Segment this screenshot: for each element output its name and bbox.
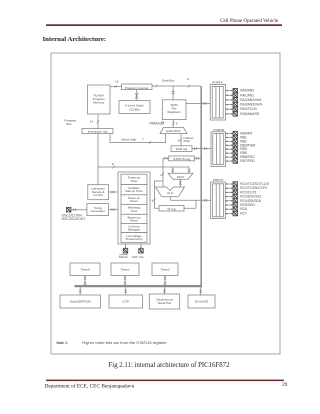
svg-text:Addr: Addr xyxy=(183,139,190,143)
block Instruction Decode and Control xyxy=(88,185,109,200)
wire indirect addr xyxy=(178,134,194,146)
svg-text:RA1/AN1: RA1/AN1 xyxy=(240,93,254,97)
svg-text:8: 8 xyxy=(112,162,114,166)
block Timer1 xyxy=(111,263,139,276)
port PORTA xyxy=(210,80,225,120)
svg-text:RC7: RC7 xyxy=(240,212,247,216)
pin RA1/AN1 xyxy=(226,93,255,98)
block Low Voltage Programming xyxy=(121,233,147,243)
svg-text:29: 29 xyxy=(282,382,288,388)
pin RB6/PGC xyxy=(226,155,256,160)
pin RB5 xyxy=(226,151,247,156)
svg-text:Internal Architecture:: Internal Architecture: xyxy=(43,36,107,43)
svg-text:Bus: Bus xyxy=(67,122,73,126)
pin RC7 xyxy=(225,211,247,216)
mux MUX xyxy=(168,173,193,179)
svg-text:Program Counter: Program Counter xyxy=(125,86,149,90)
svg-text:9: 9 xyxy=(176,121,178,125)
block Timer0 xyxy=(70,263,100,276)
wire timing to control column xyxy=(109,208,119,211)
svg-text:Timer: Timer xyxy=(130,179,137,183)
block Watchdog Timer xyxy=(121,204,147,214)
svg-text:Cell Phone Operated Vehicle: Cell Phone Operated Vehicle xyxy=(220,19,279,24)
block FLASH Program Memory xyxy=(88,85,111,114)
pin RA2/AN2/Vref- xyxy=(226,98,262,103)
svg-text:10-bit A/D: 10-bit A/D xyxy=(195,300,209,304)
svg-text:Timer1: Timer1 xyxy=(120,267,130,271)
block control column outer xyxy=(118,172,150,244)
block RAM File Registers xyxy=(162,100,186,120)
wire ALU output to data bus and PORTC xyxy=(170,197,210,202)
pin RC6 xyxy=(225,207,247,212)
wire mux right input xyxy=(188,167,191,173)
svg-text:Timer0: Timer0 xyxy=(80,267,90,271)
svg-text:(1): (1) xyxy=(162,122,165,124)
block Power-up Timer xyxy=(121,174,147,184)
svg-text:Generation: Generation xyxy=(91,209,106,213)
svg-text:(13-Bit): (13-Bit) xyxy=(129,107,139,111)
block Data EEPROM xyxy=(60,295,101,308)
wire STATUS to data bus xyxy=(195,157,201,160)
svg-text:Direct Addr: Direct Addr xyxy=(122,137,137,141)
pin RC1/T1OSI/CCP2 xyxy=(225,186,267,191)
wire Synchronous Serial Port to bus xyxy=(163,287,166,294)
pin RB1 xyxy=(226,135,247,140)
wire PC to stack xyxy=(135,90,139,101)
block W reg xyxy=(159,206,184,212)
svg-text:8: 8 xyxy=(178,138,180,142)
pin RA3/AN3/Vref+ xyxy=(226,102,263,107)
svg-text:Programming: Programming xyxy=(126,237,143,241)
wire W reg to ALU output line xyxy=(184,200,196,208)
pin VDD VSS xyxy=(132,244,145,259)
svg-text:MUX: MUX xyxy=(177,175,184,179)
svg-text:Debugger: Debugger xyxy=(128,228,140,232)
svg-text:STATUS reg: STATUS reg xyxy=(173,157,190,161)
block Timer2 xyxy=(152,263,178,276)
pin RC0/T1OSO/T1CKI xyxy=(225,182,269,187)
pin RC2/CCP1 xyxy=(225,190,256,195)
port PORTB xyxy=(211,128,226,166)
pin MCLR xyxy=(119,244,128,259)
pin RA4/T0CKI xyxy=(226,107,257,112)
svg-text:FSR reg: FSR reg xyxy=(176,147,188,151)
block In-Circuit Debugger xyxy=(121,223,147,232)
bus data bus vertical xyxy=(200,86,202,287)
svg-text:Department of ECE, CEC Benjana: Department of ECE, CEC Benjanapadavu xyxy=(45,383,135,390)
wire direct addr xyxy=(110,134,166,145)
wire AD to bus xyxy=(199,287,202,295)
PAGE CHROME xyxy=(43,19,288,390)
wire data bus top xyxy=(152,77,201,87)
svg-text:Vdd, Vss: Vdd, Vss xyxy=(132,255,145,259)
wire CCP to bus xyxy=(124,287,127,295)
block Timing Generation xyxy=(87,204,109,216)
svg-text:8: 8 xyxy=(187,77,189,81)
svg-text:CCP: CCP xyxy=(122,300,129,304)
svg-text:RB7/PGD: RB7/PGD xyxy=(240,159,255,163)
svg-text:RA0/AN0: RA0/AN0 xyxy=(240,89,254,93)
svg-text:Data Bus: Data Bus xyxy=(162,78,175,82)
svg-text:Data EEPROM: Data EEPROM xyxy=(70,300,91,304)
block Power-on Reset xyxy=(121,195,147,205)
block CCP xyxy=(109,295,143,308)
svg-text:Higher order bits are from the: Higher order bits are from the STATUS re… xyxy=(82,340,167,345)
wire 13-bit program address xyxy=(110,79,122,88)
mux Addr MUX xyxy=(160,128,187,134)
svg-text:W reg: W reg xyxy=(167,207,176,211)
svg-text:Control: Control xyxy=(93,193,103,197)
wire instruction reg to decode xyxy=(97,134,99,185)
svg-text:PORTC: PORTC xyxy=(213,178,225,182)
svg-text:Memory: Memory xyxy=(93,101,105,105)
wire literal bus xyxy=(98,162,189,168)
pin RA0/AN0 xyxy=(226,88,255,93)
wire RAM Addr 9 xyxy=(150,120,178,128)
wire mux output to ALU xyxy=(179,179,182,187)
bus bottom peripheral bus xyxy=(75,285,203,287)
pin OSC1 OSC2 xyxy=(62,207,87,221)
wire Timer2 to bus xyxy=(164,276,167,286)
pin RB2 xyxy=(226,139,247,144)
block STATUS reg xyxy=(169,156,195,161)
wire Data EEPROM to bus xyxy=(79,287,82,295)
svg-text:Note 1:: Note 1: xyxy=(57,341,69,345)
wire Timer1 to bus xyxy=(124,276,127,286)
pin RB0/INT xyxy=(226,131,253,136)
wire STATUS left to ALU input xyxy=(160,157,169,187)
svg-text:RA4/T0CKI: RA4/T0CKI xyxy=(240,107,257,111)
pin RB7/PGD xyxy=(226,159,256,164)
svg-text:ALU: ALU xyxy=(167,191,173,195)
svg-text:Fig 2.11: internal architectur: Fig 2.11: internal architecture of PIC16… xyxy=(109,362,231,369)
svg-text:13: 13 xyxy=(115,79,119,83)
svg-text:Registers: Registers xyxy=(168,110,182,114)
alu ALU xyxy=(156,187,185,197)
block FSR reg xyxy=(171,146,192,152)
block Program Counter xyxy=(122,84,153,90)
block Brown-out Reset xyxy=(121,214,147,223)
wire decode to control column xyxy=(109,191,119,194)
wire Timer0 to bus xyxy=(84,276,87,286)
note text xyxy=(57,340,168,345)
svg-text:14: 14 xyxy=(90,119,94,123)
pin RB4 xyxy=(226,147,247,152)
pin RB3/PGM xyxy=(226,143,256,148)
svg-text:Instruction reg: Instruction reg xyxy=(88,130,108,134)
block 10-bit AD xyxy=(188,295,215,308)
wire program bus xyxy=(65,114,100,129)
svg-text:PORTA: PORTA xyxy=(212,80,223,84)
wire FSR to data bus and PORTB xyxy=(192,147,211,150)
pin RC4/SDI/SDA xyxy=(225,199,262,204)
svg-text:MCLR: MCLR xyxy=(119,255,128,259)
block 8 Level Stack xyxy=(119,101,150,114)
pin RC3/SCK/SCL xyxy=(225,194,262,199)
block Instruction reg xyxy=(82,129,113,134)
svg-text:Reset: Reset xyxy=(130,199,138,203)
wire mux left input xyxy=(172,167,175,173)
svg-text:Addr MUX: Addr MUX xyxy=(166,129,180,133)
block Synchronous Serial Port xyxy=(149,294,179,309)
pin RA5/AN4/SS xyxy=(226,112,261,117)
block Oscillator Start-up Timer xyxy=(121,185,147,195)
svg-text:Start-up Timer: Start-up Timer xyxy=(125,189,143,193)
svg-text:OSC2/CLKOUT: OSC2/CLKOUT xyxy=(62,217,86,221)
port PORTC xyxy=(211,178,226,218)
svg-text:RA2/AN2/Vref-: RA2/AN2/Vref- xyxy=(240,98,262,102)
pin RC5/SDO xyxy=(225,203,255,208)
svg-text:Timer: Timer xyxy=(130,209,137,213)
wire data bus to RAM file registers xyxy=(172,86,175,100)
svg-text:RC6: RC6 xyxy=(240,207,247,211)
wire ALU loop to W reg xyxy=(152,181,163,208)
svg-text:Reset: Reset xyxy=(130,219,138,223)
svg-text:RA3/AN3/Vref+: RA3/AN3/Vref+ xyxy=(240,103,263,107)
wire data bus to PORTA xyxy=(186,102,210,105)
svg-text:Timer2: Timer2 xyxy=(160,267,170,271)
svg-text:RA5/AN4/SS: RA5/AN4/SS xyxy=(240,112,260,116)
svg-text:Serial Port: Serial Port xyxy=(158,301,172,305)
